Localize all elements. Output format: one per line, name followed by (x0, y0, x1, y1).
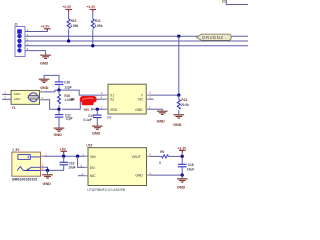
node junction VDD (96, 108, 99, 111)
node junction Y/R13 (177, 93, 180, 96)
node junction w2/oscillator output (177, 35, 180, 38)
wire jack pin2 / ground node (41, 167, 64, 171)
svg-text:EN: EN (90, 166, 95, 170)
svg-text:0: 0 (159, 161, 161, 165)
capacitor C20 12pF (55, 80, 72, 90)
ground (jack) (42, 170, 53, 185)
wire bus w3 (J1 pin 3) (25, 40, 248, 42)
power +3.3V (regulator output) (177, 146, 187, 156)
wire EN (78, 156, 88, 168)
connector J1 (14, 23, 28, 57)
power +3.3V (pull-up R11) (86, 5, 96, 19)
ground (C20 top) (39, 79, 50, 90)
svg-text:4.99k: 4.99k (70, 24, 78, 28)
capacitor C21 12pF (55, 109, 73, 127)
svg-text:GND: GND (14, 92, 22, 96)
svg-text:GND: GND (14, 97, 22, 101)
wire jack pin3 (41, 164, 48, 171)
svg-text:VOUT: VOUT (132, 155, 141, 159)
svg-text:R10: R10 (71, 19, 77, 23)
wire Y1 pin4 to node X2 (40, 96, 59, 109)
node junction X1 (57, 88, 60, 91)
svg-text:NC: NC (138, 98, 143, 102)
pin stubs (gray) jack and crystal (40, 92, 45, 170)
svg-text:+3.3V: +3.3V (41, 25, 51, 29)
wire X2 left jog (62, 98, 80, 109)
svg-text:GND: GND (40, 61, 49, 65)
crystal Y1 (11, 90, 39, 110)
svg-text:LP38798MFX-5.0-3/NOPB: LP38798MFX-5.0-3/NOPB (87, 188, 125, 192)
wire pin1 to +3.3V (25, 29, 47, 32)
power +3.3V (pull-up R10) (62, 5, 72, 19)
power stems red (47, 9, 182, 153)
capacitor C19 0.1uF (84, 109, 102, 125)
resistor R11 4.99k (91, 19, 102, 46)
svg-text:GND: GND (173, 123, 182, 127)
power +5V label (VDD net) (83, 105, 108, 112)
svg-text:4.99k: 4.99k (95, 24, 103, 28)
svg-text:X2: X2 (110, 98, 114, 102)
wire pin5 to ground (25, 51, 46, 55)
wire regulator GND pin (147, 171, 183, 175)
svg-text:GND: GND (177, 185, 186, 189)
svg-text:+5V: +5V (60, 147, 67, 151)
svg-text:Y1: Y1 (12, 106, 16, 110)
pin stubs (gray) regulator (84, 156, 150, 176)
power +3.3V (connector pin 1) (41, 25, 51, 29)
wire X2 (right of red mark) (96, 95, 108, 99)
svg-text:U8: U8 (107, 115, 112, 119)
svg-text:1.00M: 1.00M (64, 98, 73, 102)
ground (R13) (173, 115, 184, 127)
wire VOUT (147, 153, 162, 157)
svg-text:C18: C18 (188, 163, 194, 167)
svg-text:10uF: 10uF (68, 166, 75, 170)
node junction jack ground (46, 169, 49, 172)
svg-text:+3.3V: +3.3V (86, 5, 96, 9)
ground (C19) (92, 126, 103, 136)
red annotation mark (71, 96, 97, 105)
svg-text:GND: GND (135, 174, 143, 178)
svg-text:J_5V: J_5V (12, 148, 20, 152)
regulator U15 (86, 143, 146, 191)
ground (J1 pin 5) (40, 55, 51, 65)
svg-text:0.1uF: 0.1uF (84, 118, 92, 122)
pin N/C stub (78, 172, 88, 176)
wire w2 down to Y pin (178, 36, 180, 95)
resistor R13 20.0k (177, 95, 189, 114)
ground (oscillator) (157, 111, 168, 123)
svg-text:VIN: VIN (90, 155, 96, 159)
svg-text:12pF: 12pF (64, 85, 71, 89)
svg-text:R0: R0 (160, 150, 164, 154)
svg-text:N/C: N/C (90, 174, 96, 178)
svg-text:10uF: 10uF (187, 168, 194, 172)
wire Y1 pin2 stub (2, 91, 11, 95)
wire Y output (146, 91, 179, 96)
node junction EN riser (76, 155, 79, 158)
power +5V symbol (60, 147, 67, 156)
wire Y1 pin1 to node X1 (40, 88, 59, 92)
svg-text:R11: R11 (95, 19, 101, 23)
svg-text:20.0k: 20.0k (181, 103, 189, 107)
svg-text:GND: GND (43, 182, 52, 186)
resistor R0 0 (159, 150, 182, 165)
svg-text:+5V: +5V (83, 108, 90, 112)
svg-text:GND: GND (40, 86, 49, 90)
wire oscillator GND pin (146, 105, 162, 110)
svg-text:GND: GND (54, 133, 63, 137)
wire C20 top to ground (44, 75, 59, 81)
pin stubs (gray) oscillator (104, 95, 150, 109)
node junction GND/C18 (181, 173, 184, 176)
ground (C21) (54, 128, 65, 137)
svg-text:VDD: VDD (110, 108, 118, 112)
svg-text:DRVEN2: DRVEN2 (202, 35, 223, 40)
resistor R20 1.00M (58, 90, 74, 109)
svg-text:J1: J1 (14, 23, 18, 27)
svg-text:GND: GND (157, 120, 166, 124)
node junction R10/w3 (67, 39, 70, 42)
svg-text:+3.3V: +3.3V (177, 146, 187, 150)
svg-text:12pF: 12pF (65, 117, 72, 121)
capacitor C18 10uF (178, 156, 194, 175)
wire X1 (61, 90, 108, 95)
svg-text:GND: GND (135, 108, 143, 112)
svg-text:U15: U15 (86, 143, 92, 147)
node junction VOUT/C18 (181, 155, 184, 158)
power jack J_5V (12, 148, 41, 181)
wire fragment top-right (222, 0, 248, 5)
svg-text:GND: GND (92, 132, 101, 136)
pin NC stub (146, 95, 153, 99)
node junction R11/w4 (91, 44, 94, 47)
wire Y1 pin3 stub (2, 96, 11, 100)
wire jack pin1 (+5V rail) (41, 153, 89, 157)
svg-text:C20: C20 (64, 80, 70, 84)
oscillator U8 (107, 84, 146, 119)
node junction +5V/C16 (62, 155, 65, 158)
resistor R10 4.99k (67, 19, 78, 41)
ground (regulator output) (177, 175, 188, 189)
node junction X2 (57, 108, 60, 111)
wire bus w4 (J1 pin 4) (25, 45, 248, 47)
capacitor C16 10uF (60, 156, 76, 170)
svg-text:+3.3V: +3.3V (62, 5, 72, 9)
wire bus w2 (J1 pin 2) (25, 35, 248, 37)
svg-text:GM0100100102: GM0100100102 (12, 177, 38, 181)
net label DRVEN2 (197, 34, 232, 40)
svg-text:R13: R13 (181, 98, 187, 102)
